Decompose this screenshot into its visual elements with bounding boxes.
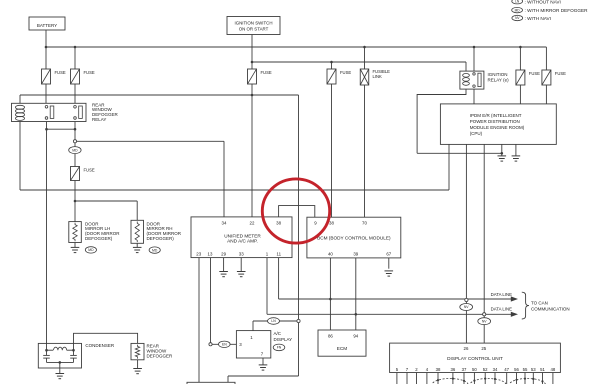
connector node ignition feed xyxy=(297,319,300,322)
svg-text:40: 40 xyxy=(328,252,333,257)
svg-text:FUSE: FUSE xyxy=(261,70,272,75)
svg-text:FUSE: FUSE xyxy=(84,70,95,75)
junction fusible link branch xyxy=(363,46,366,49)
junction BCM 40 on CAN-H xyxy=(329,298,332,301)
capacitor C2 top plate xyxy=(70,354,77,356)
svg-text:: WITH NAVI: : WITH NAVI xyxy=(525,16,551,21)
capacitor C2 bottom plate xyxy=(70,357,77,359)
door mirror RH defogger element R2 xyxy=(131,220,144,243)
svg-text:50: 50 xyxy=(472,367,477,372)
fuse F6 xyxy=(542,70,551,85)
wire condenser left node to coil xyxy=(47,349,54,351)
connector MD on mirror defogger branch xyxy=(69,147,81,154)
ground IPDM pin B xyxy=(512,156,521,161)
svg-text:25: 25 xyxy=(481,346,486,351)
svg-text:FUSE: FUSE xyxy=(55,70,66,75)
svg-text:52: 52 xyxy=(483,367,488,372)
svg-text:38: 38 xyxy=(329,221,334,226)
wire CAN-H data line xyxy=(279,298,512,300)
wire to door mirror LH xyxy=(74,201,76,222)
relay K2 contact xyxy=(473,73,481,88)
svg-text:FUSE: FUSE xyxy=(529,71,540,76)
wire ignition relay coil to IPDM ground line xyxy=(417,152,502,154)
wire defogger output to meter pin 34 xyxy=(77,140,225,142)
ground rear window defogger xyxy=(133,369,142,374)
wire condenser coil to right node xyxy=(67,349,74,351)
red highlight circle xyxy=(262,179,329,243)
svg-text:TO CAN: TO CAN xyxy=(531,300,548,305)
junction door mirror branch xyxy=(74,200,77,203)
svg-text:86: 86 xyxy=(328,334,333,339)
svg-text:(CPU): (CPU) xyxy=(470,131,483,136)
fuse F3 xyxy=(248,69,257,84)
wire meter pin 29 to ground xyxy=(223,258,225,272)
wire ignition switch through fuse to meter pin 22 xyxy=(251,35,253,217)
display control unit U7 xyxy=(390,343,561,372)
svg-text:COMMUNICATION: COMMUNICATION xyxy=(531,306,570,311)
condenser assembly box xyxy=(38,343,81,368)
junction BCM 39 on CAN-L xyxy=(355,313,358,316)
svg-text:23: 23 xyxy=(196,252,201,257)
svg-text:48: 48 xyxy=(551,367,556,372)
body control module U2 xyxy=(307,217,401,258)
wire to relay coil top xyxy=(19,95,21,103)
junction ignition relay branch xyxy=(473,46,476,49)
svg-text:BATTERY: BATTERY xyxy=(37,23,57,28)
wire meter pin 23 to front air control xyxy=(198,258,200,383)
junction battery bus xyxy=(45,46,48,49)
wire to front air control xyxy=(228,375,299,377)
wire ignition feed down to A/C display connector xyxy=(298,95,300,376)
connector MD door mirror LH xyxy=(85,247,96,253)
wire relay coil low side xyxy=(19,122,21,191)
wire battery fuse 1 branch to relay contact 1 xyxy=(45,47,47,103)
svg-text:MD: MD xyxy=(515,8,521,12)
battery B1 xyxy=(29,17,65,30)
rear window defogger element R3 xyxy=(131,343,144,359)
wire meter pin 13 to A/C display connector xyxy=(210,258,212,345)
wire A/C display pin 1 up xyxy=(252,321,254,331)
wire ignition feed to defogger relay coil xyxy=(20,94,299,96)
svg-text:MD: MD xyxy=(88,248,94,252)
relay K1 coil xyxy=(15,105,24,120)
connector node CAN-H xyxy=(465,298,468,301)
svg-text:CONDENSER: CONDENSER xyxy=(85,343,115,348)
wire IPDM pin to ground xyxy=(501,144,503,155)
twisted pair loop 2 xyxy=(470,379,506,384)
svg-text:AND A/C AMP.: AND A/C AMP. xyxy=(227,239,258,244)
wire battery to main bus xyxy=(45,30,47,47)
svg-text:MD: MD xyxy=(152,248,158,252)
junction fuse 4 branch xyxy=(330,61,333,64)
wire main bus end through fuse to IPDM xyxy=(545,47,547,104)
IPDM E/R U3 xyxy=(440,104,556,144)
connector node on defogger branch xyxy=(73,140,76,143)
wire condenser to rear window defogger xyxy=(74,333,138,350)
connector LN on A/C display pin 1 wire xyxy=(268,318,280,325)
junction ignition feed xyxy=(251,94,254,97)
legend connector LN xyxy=(512,0,523,4)
relay K2 coil xyxy=(463,74,470,86)
svg-text:70: 70 xyxy=(362,221,367,226)
svg-text:UNIFIED METER: UNIFIED METER xyxy=(224,233,261,238)
wire to capacitor C2 xyxy=(73,350,75,355)
svg-text:POWER DISTRIBUTION: POWER DISTRIBUTION xyxy=(470,119,520,124)
front air control U6 xyxy=(187,382,235,384)
junction fuse 2 branch xyxy=(74,46,77,49)
svg-text:BCM (BODY CONTROL MODULE): BCM (BODY CONTROL MODULE) xyxy=(317,236,391,241)
svg-text:53: 53 xyxy=(531,367,536,372)
svg-text:26: 26 xyxy=(464,346,469,351)
junction fuse 5 branch xyxy=(519,46,522,49)
wire IPDM to CAN-H and display control unit pin 26 xyxy=(465,144,467,343)
relay K1 contact 2 xyxy=(74,106,83,120)
junction condenser right node xyxy=(72,349,75,352)
wire capacitor C2 to ground bus xyxy=(73,358,75,362)
junction relay output 2 xyxy=(74,128,77,131)
wire A/C display pin 1 to connector xyxy=(253,320,297,322)
connector EN on A/C display pin 3 wire xyxy=(219,341,231,347)
wire ignition bus down to ignition relay coil xyxy=(465,62,467,71)
junction condenser ground bus xyxy=(59,361,62,364)
svg-text:FUSE: FUSE xyxy=(340,70,351,75)
svg-text:A/C: A/C xyxy=(274,331,282,336)
wire door mirror LH to ground xyxy=(74,243,76,248)
wire branch to door mirror RH xyxy=(75,200,137,202)
relay K1 contact 1 xyxy=(45,106,54,120)
svg-text:11: 11 xyxy=(277,252,282,257)
svg-text:IPDM E/R (INTELLIGENT: IPDM E/R (INTELLIGENT xyxy=(470,113,522,118)
inductor L1 in condenser xyxy=(54,347,67,350)
ground condenser xyxy=(56,374,65,379)
junction relay output 1 xyxy=(45,128,48,131)
svg-text:36: 36 xyxy=(451,367,456,372)
junction IPDM ground line xyxy=(501,152,504,155)
wire down to meter pin 34 xyxy=(223,141,225,217)
legend connector NV xyxy=(512,15,523,20)
fuse F5 xyxy=(516,70,525,85)
ground BCM pin 67 xyxy=(385,271,394,276)
wire A/C display pin 7 to ground xyxy=(262,358,264,365)
svg-text:: WITHOUT NAVI: : WITHOUT NAVI xyxy=(525,0,561,5)
ground meter pin 29 xyxy=(219,272,228,277)
svg-text:37: 37 xyxy=(462,367,467,372)
wire rear window defogger to ground xyxy=(137,360,139,369)
unified meter and A/C amp U1 xyxy=(191,217,292,258)
engine control module U4 xyxy=(318,330,366,356)
connector node meter to A/C display xyxy=(209,343,212,346)
wire relay contact 2 output stub xyxy=(74,122,76,130)
wire meter pin 1 to CAN-L bus xyxy=(266,258,268,315)
wire BCM pin 67 to ground xyxy=(388,258,390,269)
wire IPDM pin to ground xyxy=(515,144,517,155)
svg-text:34: 34 xyxy=(222,221,227,226)
svg-text:DISPLAY: DISPLAY xyxy=(274,337,293,342)
svg-text:NV: NV xyxy=(464,305,469,309)
wire battery fuse 2 branch to relay contact 2 xyxy=(74,47,76,103)
svg-text:38: 38 xyxy=(276,221,281,226)
wire A/C display pin 3 to connector xyxy=(212,343,236,345)
svg-text:EN: EN xyxy=(222,343,227,347)
svg-text:51: 51 xyxy=(540,367,545,372)
brace to CAN communication xyxy=(522,292,529,319)
wire relay contact 1 output stub xyxy=(46,122,48,130)
connector NV CAN-L xyxy=(478,318,491,325)
svg-text:LINK: LINK xyxy=(373,74,383,79)
svg-text:67: 67 xyxy=(386,252,391,257)
svg-text:IGNITION SWITCH: IGNITION SWITCH xyxy=(234,20,272,25)
svg-text:FUSE: FUSE xyxy=(555,71,566,76)
wire main bus to ignition relay contact xyxy=(473,47,475,71)
fuse F4 xyxy=(327,69,336,84)
wire door mirror RH to ground xyxy=(136,243,138,247)
wire BCM pin 39 to ECM pin 94 xyxy=(355,258,357,330)
twisted pair loop 3 xyxy=(509,379,545,384)
ignition relay K2 xyxy=(460,71,484,89)
svg-text:33: 33 xyxy=(239,252,244,257)
capacitor C1 bottom plate xyxy=(43,357,50,359)
wire relay output through MD fuse xyxy=(74,129,76,201)
wire condenser to ground xyxy=(59,362,61,373)
ground A/C display pin 7 xyxy=(259,365,268,370)
wire relay output down to condenser xyxy=(46,129,48,350)
svg-text:IGNITION: IGNITION xyxy=(488,72,508,77)
junction ignition switch feed xyxy=(251,61,254,64)
svg-text:56: 56 xyxy=(514,367,519,372)
arrow CAN-H data line xyxy=(511,296,518,301)
svg-text:LN: LN xyxy=(515,0,520,3)
wire down to door mirror RH xyxy=(136,201,138,220)
svg-text:MD: MD xyxy=(72,148,78,152)
svg-text:47: 47 xyxy=(504,367,509,372)
wire BCM pin 40 to ECM pin 86 xyxy=(329,258,331,330)
svg-text:39: 39 xyxy=(353,252,358,257)
ground meter pin 33 xyxy=(237,272,246,277)
wire ignition bus through fuse to BCM pin 38 xyxy=(331,62,333,217)
fusible link FL1 xyxy=(360,69,369,85)
fuse F7 (mirror defogger) xyxy=(71,167,80,181)
wire meter pin 11 to CAN-H bus xyxy=(278,258,280,299)
rear window defogger relay K1 xyxy=(12,103,87,121)
wire main bus through fuse to IPDM xyxy=(519,47,521,104)
svg-text:MODULE ENGINE ROOM): MODULE ENGINE ROOM) xyxy=(470,125,525,130)
wire meter pin 38 to BCM pin 9 xyxy=(279,206,315,218)
connector MD door mirror RH xyxy=(149,247,160,253)
svg-text:55: 55 xyxy=(523,367,528,372)
wires display control unit bottom pins xyxy=(396,373,398,384)
svg-text:38: 38 xyxy=(436,367,441,372)
wire relay control bus to IPDM xyxy=(20,189,449,191)
wire CAN-L data line xyxy=(267,313,511,315)
svg-text:13: 13 xyxy=(208,252,213,257)
ground IPDM pin A xyxy=(498,156,507,161)
wire main bus through fusible link to BCM pin 70 xyxy=(364,47,366,217)
svg-text:FUSE: FUSE xyxy=(84,167,95,172)
wire main battery bus xyxy=(46,46,546,48)
wire ignition relay contact to IPDM xyxy=(473,89,475,104)
legend connector MD xyxy=(512,7,523,12)
capacitor C1 top plate xyxy=(43,354,50,356)
svg-text:DISPLAY CONTROL UNIT: DISPLAY CONTROL UNIT xyxy=(447,356,503,361)
door mirror LH defogger element R1 xyxy=(69,222,82,243)
svg-text:29: 29 xyxy=(221,252,226,257)
svg-text:ON OR START: ON OR START xyxy=(239,26,269,31)
svg-text:LN: LN xyxy=(271,319,276,323)
wire IPDM pin to relay control bus xyxy=(448,144,450,190)
svg-text:DEFOGGER): DEFOGGER) xyxy=(147,236,175,241)
svg-text:DEFOGGER: DEFOGGER xyxy=(147,353,174,358)
svg-text:FN: FN xyxy=(277,346,282,350)
svg-text:DATA LINE: DATA LINE xyxy=(491,307,512,312)
svg-text:RELAY (e): RELAY (e) xyxy=(488,77,510,82)
svg-text:22: 22 xyxy=(250,221,255,226)
svg-text:DEFOGGER): DEFOGGER) xyxy=(85,236,113,241)
svg-text:34: 34 xyxy=(493,367,498,372)
wire ignition relay coil low side xyxy=(417,89,466,153)
wire condenser ground bus xyxy=(47,361,74,363)
twisted pair loop 1 xyxy=(432,379,468,384)
ignition switch SW1 xyxy=(227,17,280,35)
svg-text:RELAY: RELAY xyxy=(92,117,106,122)
connector NV CAN-H xyxy=(460,304,473,311)
connector FN A/C display xyxy=(273,344,285,351)
svg-text:: WITH MIRROR DEFOGGER: : WITH MIRROR DEFOGGER xyxy=(525,8,589,13)
arrow CAN-L data line xyxy=(511,312,518,317)
wire IPDM to CAN-L and display control unit pin 25 xyxy=(483,144,485,343)
wire joining relay outputs xyxy=(47,128,76,130)
fuse F2 xyxy=(71,69,80,84)
ground door mirror RH xyxy=(133,247,142,252)
svg-text:ECM: ECM xyxy=(337,346,348,351)
ground door mirror LH xyxy=(71,247,80,252)
fuse F1 xyxy=(42,69,51,84)
wire ignition bus xyxy=(252,61,466,63)
svg-text:NV: NV xyxy=(482,319,487,323)
wire into front air control xyxy=(227,376,229,382)
wire capacitor C1 to ground bus xyxy=(46,358,48,362)
junction condenser left node xyxy=(45,349,48,352)
wire meter pin 33 to ground xyxy=(240,258,242,272)
svg-text:94: 94 xyxy=(353,334,358,339)
connector node CAN-L xyxy=(483,313,486,316)
svg-text:DATA LINE: DATA LINE xyxy=(491,292,512,297)
junction dots on twisted pair wires xyxy=(437,378,544,383)
A/C display U5 xyxy=(236,331,270,358)
wire to capacitor C1 xyxy=(46,350,48,355)
